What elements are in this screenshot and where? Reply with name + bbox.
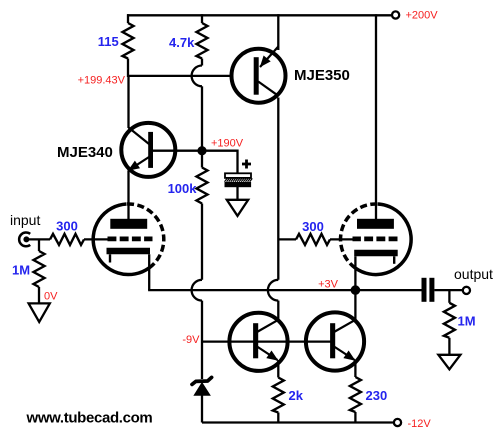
svg-text:output: output [454,266,493,282]
svg-text:-9V: -9V [182,334,200,346]
wire node +199.43V horizontal [128,75,232,77]
transistor Q1 MJE340 [121,76,202,224]
svg-text:-12V: -12V [408,418,432,430]
triode V2 grid [353,236,398,241]
resistor R1 115 [123,14,134,77]
triode V1 plate [110,219,147,229]
terminal -12V [394,419,401,426]
transistor Q4 [306,290,364,377]
wire -9V base line [202,340,332,342]
wire hop of 4.7k column over +199.43V wire [192,66,202,87]
triode V2 cathode stub [393,256,395,264]
svg-text:+190V: +190V [211,138,244,150]
capacitor C1 plus sign [242,160,251,169]
node +3V junction dot [351,285,361,295]
resistor R2 4.7k [197,14,208,65]
svg-text:0V: 0V [44,291,58,303]
svg-text:MJE350: MJE350 [294,67,350,84]
wire collector column below hop to Q3 [277,301,279,322]
ground symbol at C1 [227,200,248,216]
wire V2 cathode lead to +3V node [354,256,356,290]
triode V1 (left) envelope [93,204,164,275]
node +190V junction dot [197,146,206,155]
svg-text:input: input [10,212,40,228]
capacitor C2 (output) [422,278,463,302]
triode V2 plate [357,219,394,229]
input jack terminal [19,232,30,246]
triode V1 cathode [107,248,151,255]
resistor R4 300 (left grid stopper) [50,234,112,245]
svg-text:1M: 1M [12,263,30,278]
wire V1 cathode lead [148,254,150,290]
resistor R5 1M (input load) [34,239,45,303]
svg-text:100k: 100k [168,181,198,196]
resistor R6 300 (right grid stopper) [278,234,358,245]
resistor R8 230 [350,377,361,423]
wire 100k column below hop to -9V node [201,301,203,379]
svg-text:+199.43V: +199.43V [78,75,126,87]
svg-text:www.tubecad.com: www.tubecad.com [26,409,153,426]
svg-text:115: 115 [98,34,119,49]
svg-text:+200V: +200V [406,10,439,22]
transistor Q2 MJE350 [232,14,286,103]
wire top +200V rail [127,14,391,16]
terminal output [463,287,470,294]
wire hop of 100k column over +3V wire [192,280,202,301]
svg-text:1M: 1M [458,314,476,329]
transistor Q3 [229,313,287,378]
wire +190V to capacitor [202,151,238,174]
svg-text:+3V: +3V [318,279,339,291]
zener diode D1 [192,377,212,422]
triode V1 grid [108,236,153,241]
wire V2 plate lead from +200V rail [375,14,377,224]
svg-text:2k: 2k [289,388,304,403]
terminal +200V [392,11,399,18]
svg-text:300: 300 [302,219,324,234]
svg-text:230: 230 [366,388,388,403]
resistor R3 100k [197,151,208,280]
wire input to grid resistor [28,238,50,240]
svg-text:MJE340: MJE340 [57,144,113,161]
wire +3V / cathode output line [148,289,421,291]
wire hop of MJE350 collector column over +3V wire [268,280,278,301]
svg-text:4.7k: 4.7k [169,35,195,50]
svg-text:300: 300 [56,219,78,234]
capacitor C1 [225,173,253,200]
resistor R9 1M (output load) [444,290,455,355]
triode V2 cathode [354,250,398,257]
triode V1 cathode stub [109,254,111,262]
triode V2 (right) envelope [341,204,412,275]
resistor R7 2k [273,378,284,423]
wire bottom -12V rail [202,421,393,423]
ground symbol at output [438,355,460,370]
wire 4.7k column down to +190V node [201,86,203,150]
ground symbol at input [29,303,50,322]
wire MJE350 collector column [277,98,279,280]
